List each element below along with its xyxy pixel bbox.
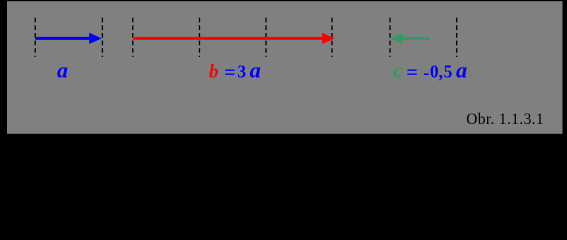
dashed tick line 5 — [265, 18, 267, 57]
dashed tick line 1 — [34, 18, 36, 57]
vector c: green arrow (points left) — [390, 33, 429, 44]
svg-text:Obr. 1.1.3.1: Obr. 1.1.3.1 — [466, 111, 544, 128]
vector b: red arrow — [133, 33, 335, 44]
svg-text:a: a — [456, 58, 467, 83]
svg-text:b: b — [209, 62, 219, 83]
dashed tick line 6 — [331, 18, 333, 57]
svg-text:0,: 0, — [430, 62, 443, 82]
svg-text:a: a — [57, 58, 68, 83]
dashed tick line 2 — [101, 18, 103, 57]
svg-text:3: 3 — [237, 62, 246, 82]
gray panel — [7, 1, 563, 134]
svg-text:5: 5 — [444, 62, 453, 82]
svg-text:a: a — [250, 58, 261, 83]
dashed tick line 3 — [132, 18, 134, 57]
vector a: blue arrow — [35, 33, 102, 44]
dashed tick line 4 — [199, 18, 201, 57]
dashed tick line 7 — [389, 18, 391, 57]
svg-text:=: = — [224, 62, 235, 84]
svg-text:=: = — [406, 62, 417, 84]
svg-text:c: c — [393, 58, 403, 83]
black page background — [0, 0, 567, 144]
svg-text:-: - — [423, 63, 429, 83]
dashed tick line 8 — [456, 18, 458, 57]
